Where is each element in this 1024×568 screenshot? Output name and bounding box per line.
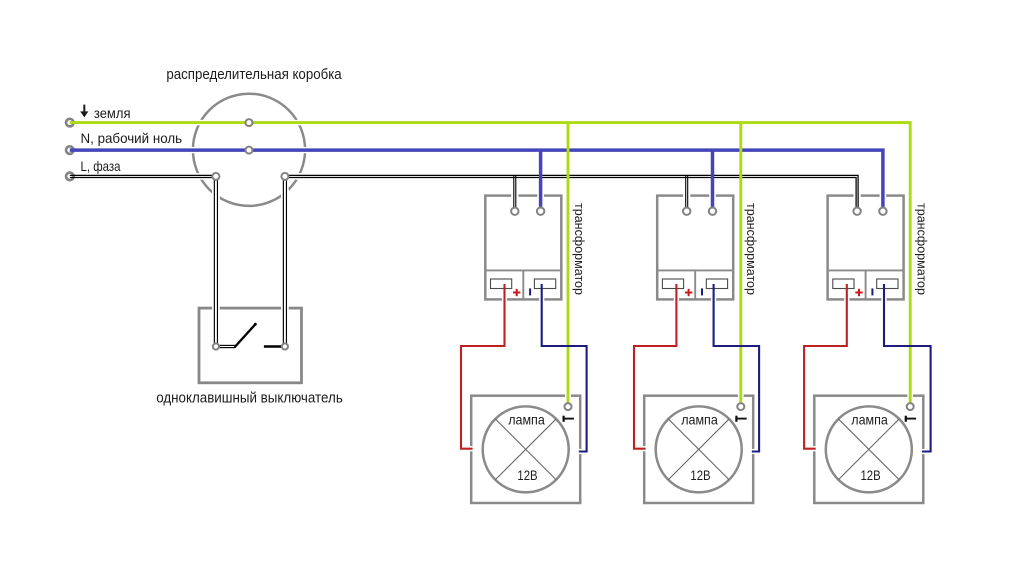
transformer T2 output terminal blocks bbox=[662, 279, 683, 289]
wire: N neutral main line (corner down to T3 right pin) bbox=[70, 150, 883, 208]
transformer T3 input pin L bbox=[853, 208, 860, 215]
lamp 1 X cross bbox=[495, 419, 556, 480]
transformer T1 polarity mark - (vertical dash) bbox=[529, 288, 531, 295]
wire: neutral drop to transformer T2 right pin bbox=[711, 150, 715, 208]
wire: 12V + (red) transformer T1 to lamp 1 bbox=[461, 284, 505, 449]
label: лампа (1) bbox=[506, 414, 545, 427]
wire: L phase from input terminal to left junction (double line) bbox=[70, 174, 216, 176]
transformer T1 polarity mark + bbox=[513, 289, 520, 296]
svg-text:трансформатор: трансформатор bbox=[572, 203, 587, 295]
wire: 12V - (navy) transformer T2 to lamp 2 bbox=[714, 284, 760, 452]
wire: switch leg left (double vertical) bbox=[213, 176, 215, 344]
wire: 12V + (red) transformer T2 to lamp 2 bbox=[634, 284, 676, 449]
svg-text:лампа: лампа bbox=[851, 412, 888, 428]
wire: neutral drop to transformer T1 right pin bbox=[539, 150, 543, 208]
lamp 2 ground symbol bbox=[735, 416, 746, 422]
lamp 2 X cross bbox=[668, 419, 729, 480]
junction: phase to switch (left) bbox=[212, 173, 219, 180]
svg-text:трансформатор: трансформатор bbox=[744, 203, 759, 295]
junction: ground in distribution box bbox=[246, 119, 253, 126]
transformer T3 output section dividers bbox=[828, 269, 904, 271]
transformer T1 output terminal blocks bbox=[491, 279, 512, 289]
wire: ground drop to lamp 1 pin bbox=[567, 123, 570, 403]
transformer T1 input pin L bbox=[511, 208, 518, 215]
transformer T3 polarity mark - (vertical dash) bbox=[871, 288, 873, 295]
wire: 12V - (navy) transformer T3 to lamp 3 bbox=[884, 284, 931, 452]
label: 12В (2) bbox=[687, 470, 710, 482]
lamp 3 ground symbol bbox=[905, 416, 916, 422]
wire: switched phase to transformers (double line with corner at T3) bbox=[285, 175, 858, 207]
label: 12В (1) bbox=[514, 470, 537, 482]
switch fixed contact bbox=[264, 345, 281, 348]
lamp 2 circle bbox=[656, 406, 742, 492]
lamp 2 ground pin bbox=[737, 403, 744, 410]
wire: phase drop to transformer T2 left pin bbox=[685, 175, 687, 207]
transformer T2 box bbox=[657, 196, 733, 300]
wire: ground drop to lamp 2 pin bbox=[739, 123, 742, 403]
svg-text:12В: 12В bbox=[517, 467, 537, 483]
transformer T3 output terminal blocks bbox=[833, 279, 854, 289]
lamp 3 circle bbox=[826, 406, 912, 492]
wire: 12V - (navy) transformer T1 to lamp 1 bbox=[542, 284, 587, 452]
terminal: phase input (L) bbox=[66, 173, 74, 181]
transformer T3 input pin N bbox=[879, 208, 886, 215]
wire: ground (земля) main line, corner down to lamp 3 pin bbox=[70, 123, 910, 403]
label: лампа (3) bbox=[849, 414, 888, 427]
transformer T2 output section dividers bbox=[657, 269, 733, 271]
transformer T1 box bbox=[485, 196, 561, 300]
terminal: ground input (земля) bbox=[66, 119, 74, 127]
terminal: neutral input (N) bbox=[66, 146, 74, 154]
label: 12В (3) bbox=[857, 470, 880, 482]
transformer T3 box bbox=[828, 196, 904, 300]
transformer T3 polarity mark + bbox=[855, 289, 862, 296]
svg-text:земля: земля bbox=[94, 105, 131, 121]
transformer T1 output section dividers bbox=[485, 269, 561, 271]
junction: phase from switch (right) bbox=[281, 173, 288, 180]
svg-text:лампа: лампа bbox=[681, 412, 718, 428]
white casings where wires cross box borders bbox=[195, 120, 204, 126]
lamp 3 square bbox=[814, 396, 923, 503]
label: лампа (2) bbox=[679, 414, 718, 427]
distribution box (распределительная коробка) circle bbox=[193, 94, 305, 206]
lamp 2 square bbox=[644, 396, 753, 503]
junction: neutral in distribution box bbox=[246, 147, 253, 154]
transformer T2 polarity mark + bbox=[685, 289, 692, 296]
switch box (одноклавишный выключатель) bbox=[199, 308, 302, 383]
lamp 1 ground pin bbox=[565, 403, 572, 410]
svg-text:N, рабочий ноль: N, рабочий ноль bbox=[81, 130, 183, 146]
svg-text:трансформатор: трансформатор bbox=[915, 203, 930, 295]
svg-text:L, фаза: L, фаза bbox=[81, 158, 121, 174]
wire: switch leg right (double vertical) bbox=[282, 176, 284, 344]
svg-text:12В: 12В bbox=[861, 467, 881, 483]
svg-text:лампа: лампа bbox=[508, 412, 545, 428]
svg-text:одноклавишный выключатель: одноклавишный выключатель bbox=[156, 390, 343, 407]
svg-text:12В: 12В bbox=[690, 467, 710, 483]
ground symbol (arrow) next to земля label bbox=[80, 105, 88, 118]
lamp 1 ground symbol bbox=[563, 416, 574, 422]
lamp 3 ground pin bbox=[907, 403, 914, 410]
transformer T2 input pin L bbox=[683, 208, 690, 215]
transformer T2 input pin N bbox=[709, 208, 716, 215]
switch lever (open contact) bbox=[220, 344, 236, 346]
transformer T1 input pin N bbox=[537, 208, 544, 215]
wire: phase drop to transformer T1 left pin bbox=[513, 175, 515, 207]
wire: 12V + (red) transformer T3 to lamp 3 bbox=[804, 284, 847, 449]
switch terminal right bbox=[282, 343, 288, 349]
switch terminal left bbox=[213, 343, 219, 349]
lamp 3 X cross bbox=[838, 419, 899, 480]
lamp 1 circle bbox=[483, 406, 569, 492]
lamp 1 square bbox=[471, 396, 580, 503]
svg-text:распределительная коробка: распределительная коробка bbox=[166, 66, 342, 83]
transformer T2 polarity mark - (vertical dash) bbox=[701, 288, 703, 295]
